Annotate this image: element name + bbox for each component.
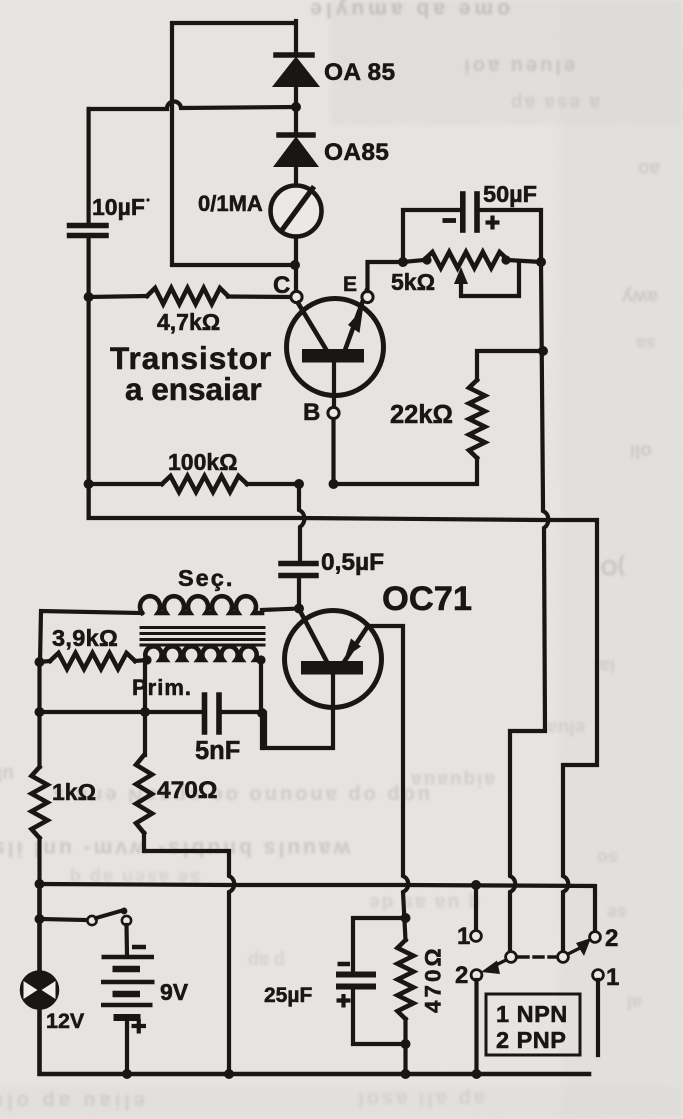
svg-text:1kΩ: 1kΩ: [52, 779, 96, 805]
label 50uF: [483, 181, 537, 207]
node dots on pot wire: [398, 255, 546, 267]
svg-text:10µF: 10µF: [92, 194, 145, 220]
node: meter-bottom junction dot: [290, 260, 300, 270]
capacitor C 10uF: [70, 226, 107, 517]
svg-text:so: so: [597, 848, 618, 868]
svg-text:elua: elua: [547, 717, 585, 738]
wire: primary left down to 5nF row: [143, 660, 147, 755]
svg-text:50µF: 50µF: [483, 181, 537, 207]
svg-text:sa: sa: [635, 334, 656, 354]
svg-text:elueu aoi: elueu aoi: [461, 55, 575, 77]
capacitor C 0.5uF: [281, 564, 316, 609]
label 10uF: [92, 194, 150, 220]
svg-text:a esa ap: a esa ap: [509, 92, 600, 113]
terminal E: [362, 291, 373, 302]
svg-text:uop op anouno oe epaaN ena s: uop op anouno oe epaaN ena s: [50, 784, 430, 806]
svg-text:ap ali asol: ap ali asol: [355, 1088, 485, 1110]
svg-text:1: 1: [606, 964, 619, 991]
svg-text:ao: ao: [638, 158, 660, 179]
battery B 9V: [101, 957, 155, 1074]
node: junction between diodes: [291, 102, 301, 112]
terminal: right contact 1: [593, 970, 604, 981]
label 2 right: [605, 925, 618, 952]
node: left rail at 100k: [84, 479, 94, 489]
wire: top loop from D1 anode to meter bottom: [172, 23, 293, 265]
wire: 5nF row from left rail: [40, 710, 203, 714]
wire: meter bottom to node C: [294, 237, 298, 291]
svg-text:470Ω: 470Ω: [157, 777, 218, 804]
label 0/1MA: [198, 191, 263, 216]
wire: left rail upper (to 10uF): [86, 109, 90, 222]
node: switch-1 branch on bus: [471, 880, 481, 890]
node: left rail at 4.7k: [84, 292, 94, 302]
capacitor C 25uF bracket: [336, 918, 406, 1044]
svg-text:OA85: OA85: [324, 139, 389, 166]
label plus battery: [132, 1019, 147, 1034]
svg-text:al: al: [627, 993, 642, 1013]
label 9V: [160, 979, 189, 1005]
label 2 left: [455, 962, 468, 989]
svg-text:25µF: 25µF: [264, 984, 312, 1007]
node: primary left end: [142, 655, 265, 664]
svg-text:0/1MA: 0/1MA: [198, 191, 263, 216]
svg-text:5nF: 5nF: [195, 737, 240, 765]
node: left rail at 5nF row: [35, 707, 45, 717]
node: primary-left vertical at 5nF row: [140, 707, 150, 717]
terminal: left contact 2: [471, 970, 482, 981]
wire: branch to left fixed contact 1: [474, 885, 478, 929]
node: 25uF top on emitter rail: [401, 913, 411, 923]
node: left rail at 3.9k: [35, 657, 45, 667]
resistor R 1k: [32, 767, 48, 884]
resistor R 22k with wires: [334, 351, 544, 484]
node: B junction on 100k wire: [329, 479, 339, 489]
capacitor C 50uF with box: [403, 194, 541, 262]
wire: left contact 2 down to bottom bus: [474, 980, 478, 1074]
transformer TR primary winding: [145, 646, 262, 748]
label 5kOhm: [391, 269, 435, 295]
wire: to power switch: [40, 919, 87, 920]
svg-text:OC71: OC71: [382, 580, 472, 618]
bus: lower horizontal rail: [40, 884, 596, 931]
capacitor C 5nF: [205, 695, 263, 732]
node: 5nF right junction: [257, 708, 267, 718]
svg-text:OA 85: OA 85: [324, 59, 395, 86]
label Transistor a ensaiar: [110, 340, 272, 407]
wire: from 10uF rail to diode junction: [89, 101, 296, 109]
svg-text:100kΩ: 100kΩ: [168, 449, 238, 475]
svg-text:9V: 9V: [160, 979, 189, 1005]
switch gang dashed link: [519, 955, 557, 958]
label 1kOhm: [52, 779, 96, 805]
svg-text:2: 2: [605, 925, 618, 952]
wire: rail A from pot box down with hop over bus: [510, 262, 548, 951]
wire: E up to pot box: [368, 262, 404, 291]
label 100kOhm: [168, 449, 238, 475]
label minus battery: [132, 945, 146, 950]
label 1 left: [457, 923, 470, 950]
switch pole right pivot and arrow: [558, 938, 591, 962]
label C: [273, 272, 290, 299]
svg-text:se: se: [607, 903, 627, 923]
meter M 0/1MA: [271, 186, 322, 237]
node: 25uF bottom on emitter rail: [401, 1039, 411, 1049]
resistor R 470 bottom: [398, 940, 414, 1074]
svg-text:12V: 12V: [46, 1009, 85, 1033]
label 470Ohm bottom rotated: [421, 945, 446, 1013]
svg-text:22kΩ: 22kΩ: [390, 401, 453, 429]
label B: [303, 399, 320, 426]
wire: secondary right end to base junction: [262, 609, 299, 611]
legend box 1 NPN 2 PNP: [486, 994, 580, 1055]
power switch SW: [87, 908, 131, 955]
node: 0.5uF branch junction: [294, 479, 304, 489]
label plus 25uF: [337, 994, 351, 1008]
wire: left rail mid section: [37, 662, 41, 767]
label 12V: [46, 1009, 85, 1033]
svg-text:ome ab amuyle: ome ab amuyle: [306, 0, 510, 21]
label 25uF: [264, 984, 312, 1007]
node: OC71 base junction: [294, 604, 304, 614]
wire: left rail lamp section and bottom bus: [40, 884, 590, 1074]
node: 470-left rail on bus: [224, 1069, 234, 1079]
bus: mid horizontal rail: [89, 484, 597, 951]
wire: 0.5uF branch with hop over bus: [299, 484, 304, 561]
svg-text:1: 1: [457, 923, 470, 950]
terminal: left contact 1: [471, 931, 482, 942]
resistor R 100k: [89, 476, 299, 492]
diode D2 OA85: [275, 107, 317, 186]
svg-text:5kΩ: 5kΩ: [391, 269, 435, 295]
terminal C: [291, 291, 302, 302]
node: left rail at switch branch: [35, 914, 45, 924]
svg-text:2 PNP: 2 PNP: [496, 1027, 566, 1053]
svg-text:470Ω: 470Ω: [421, 945, 446, 1013]
svg-text:2: 2: [455, 962, 468, 989]
label 470Ohm left: [157, 777, 218, 804]
svg-text:4,7kΩ: 4,7kΩ: [157, 309, 220, 335]
transistor Q2 OC71: [265, 609, 408, 940]
wire: B terminal down to 100k wire: [331, 419, 335, 484]
lamp 12V: [22, 972, 58, 1008]
wire: right contact 1 stub down: [596, 980, 600, 1055]
node: battery bottom on bus: [122, 1069, 132, 1079]
svg-text:oli: oli: [630, 440, 652, 461]
svg-text:E: E: [343, 273, 357, 296]
label 0,5uF: [321, 549, 384, 576]
resistor R 4.7k: [89, 288, 289, 304]
wire: diode branch vertical top: [294, 21, 298, 53]
node: left rail at lower bus: [35, 879, 45, 889]
label 4,7kOhm: [157, 309, 220, 335]
svg-text:3,9kΩ: 3,9kΩ: [52, 625, 118, 651]
resistor R 470 left: [136, 755, 234, 1074]
transformer TR secondary winding: [40, 596, 262, 662]
label E (rotated): [343, 273, 357, 296]
label 22kOhm: [390, 401, 453, 429]
label Prim.: [132, 675, 192, 700]
svg-text:B: B: [303, 399, 320, 426]
svg-text:Seç.: Seç.: [178, 565, 234, 591]
svg-text:awy: awy: [622, 286, 658, 307]
label minus 25uF: [338, 962, 351, 967]
potentiometer R 5k: [403, 252, 541, 296]
svg-text:eliau ap oluauu: eliau ap oluauu: [0, 1090, 145, 1112]
terminal B: [328, 407, 339, 418]
label OA85: [324, 139, 389, 166]
node: emitter rail on bottom bus: [401, 1069, 411, 1079]
label Sec.: [178, 565, 234, 591]
svg-text:q ua as de: q ua as de: [367, 892, 480, 913]
label OA 85: [324, 59, 395, 86]
transformer core lines: [141, 628, 264, 646]
svg-text:)O: )O: [601, 555, 625, 580]
svg-text:p ap: p ap: [248, 951, 285, 971]
svg-text:a ensaiar: a ensaiar: [125, 371, 262, 407]
terminal: right contact 2: [590, 932, 601, 943]
label plus: [486, 216, 500, 230]
resistor R 3.9k: [40, 653, 148, 669]
svg-text:wauuls bnubls- wvm- unl ils aq: wauuls bnubls- wvm- unl ils aql: [0, 837, 351, 860]
svg-text:Prim.: Prim.: [132, 675, 192, 700]
label minus: [443, 218, 457, 223]
svg-text:C: C: [273, 272, 290, 299]
diode D1 OA85: [274, 55, 318, 105]
switch pole left pivot and arrow: [481, 952, 516, 974]
label 3,9kOhm: [52, 625, 118, 651]
node: rail A to 22k branch: [538, 346, 548, 356]
label 5nF: [195, 737, 240, 765]
label OC71: [382, 580, 472, 618]
label 1 right: [606, 964, 619, 991]
svg-text:uls: uls: [0, 763, 14, 784]
node: switch-2 rail on bus: [472, 1069, 482, 1079]
transistor T1 under test: [287, 291, 384, 406]
svg-text:0,5µF: 0,5µF: [321, 549, 384, 576]
svg-text:1 NPN: 1 NPN: [496, 1001, 568, 1027]
